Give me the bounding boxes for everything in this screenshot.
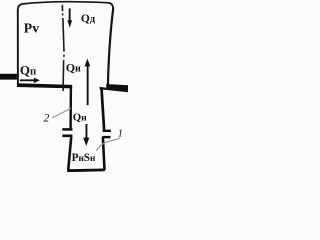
up arrow bbox=[85, 59, 91, 106]
svg-text:Qп: Qп bbox=[20, 62, 36, 77]
svg-text:Pv: Pv bbox=[24, 21, 39, 36]
centerline dash-dot bbox=[62, 5, 64, 91]
top incident flux arrow (down) bbox=[67, 8, 72, 27]
svg-text:Qи: Qи bbox=[66, 60, 81, 74]
svg-text:Qн: Qн bbox=[73, 112, 87, 124]
cup left wall bbox=[68, 137, 71, 170]
left flange upper bbox=[62, 128, 72, 131]
svg-text:Qд: Qд bbox=[81, 13, 96, 25]
outer dome right wall bbox=[108, 9, 113, 85]
cup right wall bbox=[103, 137, 105, 170]
right flange upper bbox=[103, 130, 111, 132]
outer dome left corner bbox=[18, 4, 22, 10]
cup bottom bbox=[67, 168, 105, 172]
right mounting bar bbox=[106, 84, 128, 90]
svg-text:2: 2 bbox=[44, 113, 50, 125]
outer dome left wall bbox=[17, 9, 19, 84]
right flange lower bbox=[102, 136, 110, 138]
outer dome right corner bbox=[109, 3, 113, 9]
left flange lower bbox=[62, 135, 72, 138]
tube down arrow bbox=[83, 124, 89, 146]
vessel bottom plate left bbox=[17, 83, 72, 88]
pointer line for 1 bbox=[96, 138, 120, 151]
tube right wall bbox=[102, 88, 105, 130]
vessel bottom plate right bbox=[100, 87, 128, 92]
svg-text:РнSн: РнSн bbox=[72, 152, 96, 164]
left mounting bar bbox=[0, 74, 17, 80]
outer dome top edge bbox=[22, 2, 109, 4]
pointer line for 2 bbox=[52, 108, 71, 117]
Qp arrow (right) bbox=[20, 78, 40, 84]
svg-text:1: 1 bbox=[118, 129, 123, 140]
tube left wall bbox=[69, 87, 72, 129]
